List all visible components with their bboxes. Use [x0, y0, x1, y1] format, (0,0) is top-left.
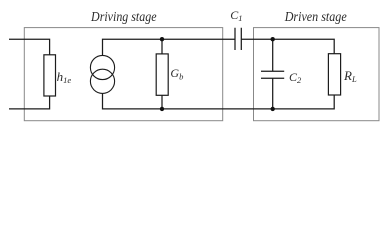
svg-text:RL: RL: [343, 68, 357, 84]
svg-text:Driving stage: Driving stage: [90, 10, 156, 25]
svg-text:Driven stage: Driven stage: [284, 10, 347, 25]
svg-text:C2: C2: [289, 70, 302, 85]
svg-text:h1e: h1e: [57, 69, 72, 85]
svg-text:Gb: Gb: [170, 66, 183, 82]
svg-text:C1: C1: [230, 8, 242, 23]
